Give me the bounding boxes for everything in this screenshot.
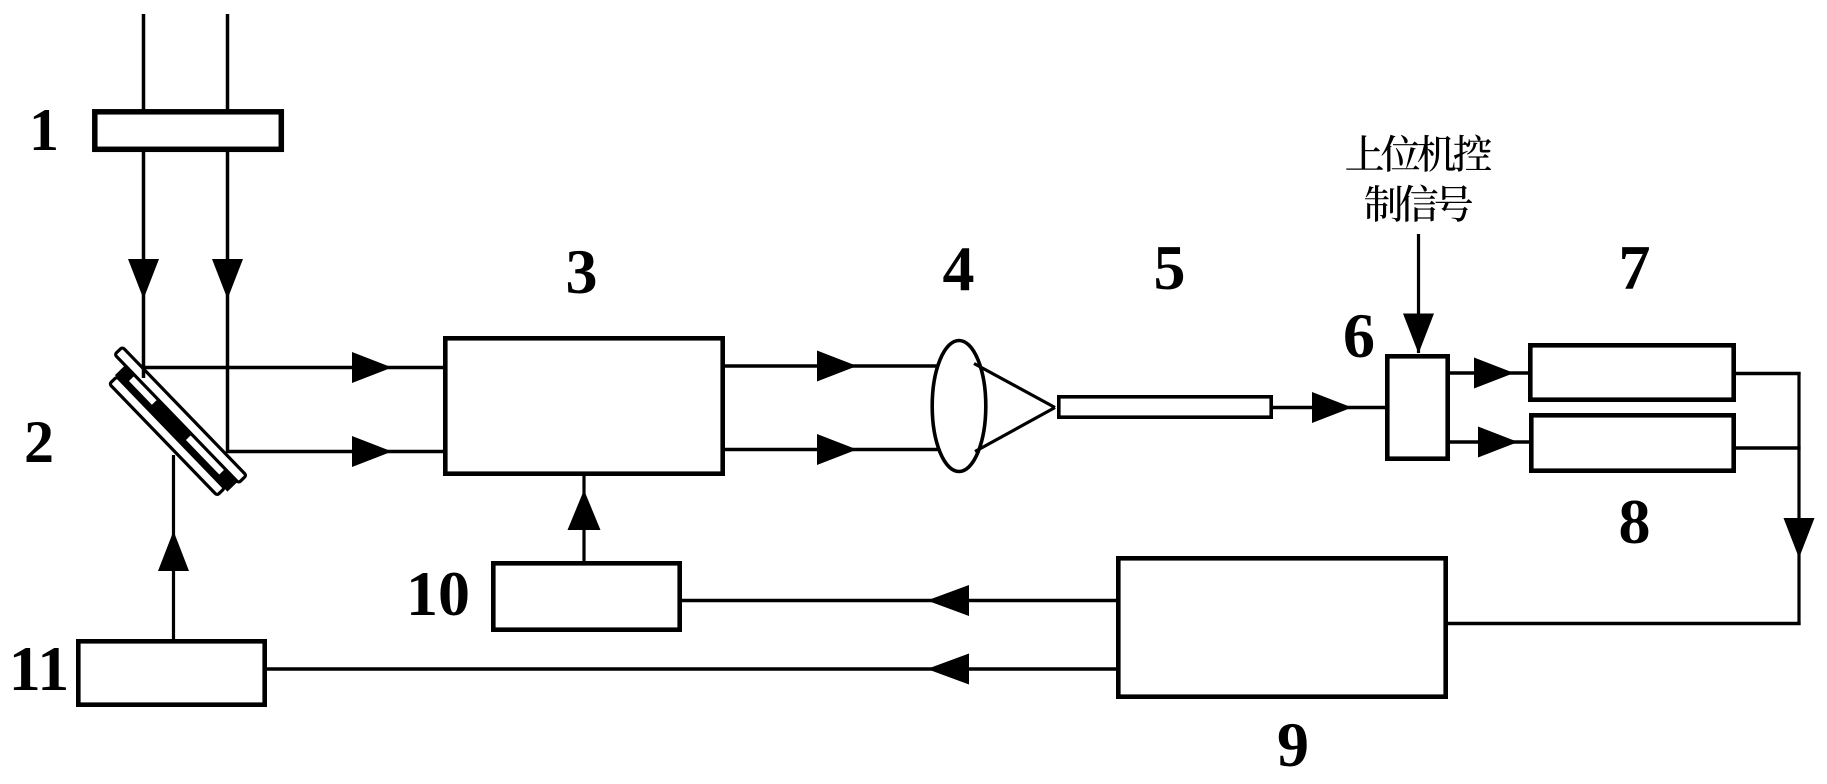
wire: box10 up to box3 [568,476,601,561]
svg-text:6: 6 [1343,300,1375,371]
component 7 box [1530,345,1733,399]
wire: box8 output to right bus [1736,446,1801,450]
wire: left input beam vertical [128,14,159,378]
wire: box9 to box11 [267,654,1116,685]
lens 4 focus cone upper edge [974,364,1055,408]
svg-text:7: 7 [1619,232,1651,303]
lens 4 focus cone lower edge [975,408,1055,452]
mirror 2 (tilted beam splitter plates) [97,347,246,500]
wire: bottom feedback to box9 right [1448,622,1801,626]
component 11 box [78,641,264,704]
component 8 box [1531,415,1733,470]
wire: mirror to box3 lower beam [228,436,444,467]
component 1 box (optical window) [95,112,281,150]
text: host computer control signal (line 2) [1365,185,1472,222]
svg-text:9: 9 [1277,709,1309,779]
svg-text:4: 4 [943,233,975,304]
svg-text:8: 8 [1619,486,1651,557]
wire: fiber 5 to box 6 [1273,392,1385,423]
wire: box3 to lens upper beam [725,351,950,382]
wire: box11 up to mirror 2 [158,455,189,639]
wire: box9 to box10 [682,585,1116,616]
svg-text:10: 10 [406,558,470,629]
wire: mirror to box3 upper beam [144,352,444,383]
text: host computer control signal (line 1) [1346,135,1491,172]
svg-text:11: 11 [9,633,69,704]
svg-text:3: 3 [566,236,598,307]
wire: box3 to lens lower beam [725,434,950,465]
component 9 box (signal processor) [1118,558,1445,696]
component 10 box (driver) [493,563,679,629]
component 6 box (optical switch) [1387,356,1447,458]
wire: box6 to box7 [1450,358,1528,389]
wire: control signal arrow into box 6 [1403,234,1434,354]
svg-text:5: 5 [1154,232,1186,303]
svg-text:1: 1 [29,97,59,163]
wire: box6 to box8 [1450,427,1529,458]
component 3 box (modulator) [445,338,722,473]
wire: right input beam vertical [212,14,243,453]
lens 4 (ellipse) [932,341,986,472]
wire: right vertical bus down with arrow [1784,372,1815,625]
wire: box7 output to right bus [1736,372,1801,376]
svg-text:2: 2 [24,409,54,475]
component 5 thin rod (optical fiber) [1059,397,1271,417]
